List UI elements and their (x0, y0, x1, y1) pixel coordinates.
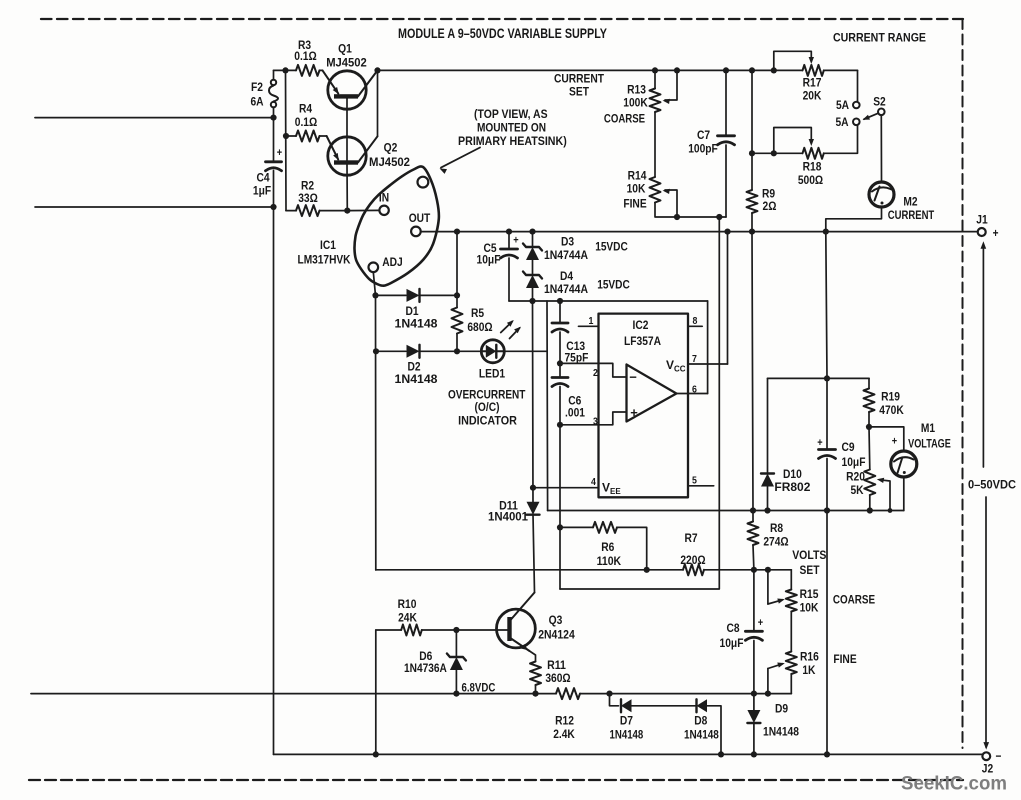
wire C4 column upper (273, 118, 275, 162)
junction R3/R4 column top (282, 67, 288, 73)
wire R13 to R14 (654, 112, 656, 177)
IC1 pin ADJ (369, 263, 379, 273)
svg-text:OUT: OUT (409, 211, 431, 225)
junction C6/pin3 (557, 422, 563, 428)
svg-text:Q2: Q2 (384, 141, 398, 155)
svg-text:15VDC: 15VDC (595, 240, 628, 254)
IC2 pin 4 lead (Vee) (533, 487, 599, 489)
svg-text:6A: 6A (250, 95, 263, 109)
junction C13 top (557, 298, 563, 304)
svg-text:J1: J1 (976, 213, 988, 227)
svg-text:0.1Ω: 0.1Ω (295, 115, 318, 129)
svg-text:M1: M1 (921, 421, 935, 435)
svg-text:+: + (993, 226, 999, 240)
junction R20 bottom (867, 507, 873, 513)
svg-text:6.8VDC: 6.8VDC (462, 681, 496, 695)
R15 wiper (767, 570, 769, 604)
wire input bottom (negative line) (31, 693, 556, 695)
junction R2/Q2 base/IN (344, 208, 350, 214)
module dashed border (bottom) (29, 779, 963, 781)
svg-text:D10: D10 (783, 467, 802, 481)
junction rail/C5 (506, 229, 512, 235)
svg-text:+: + (277, 147, 282, 159)
junction ADJ column/bottom rail (373, 751, 379, 757)
resistor R12 2.4K (556, 688, 580, 699)
svg-text:+: + (758, 617, 763, 629)
LED1 emission arrows (501, 322, 512, 333)
svg-text:R14: R14 (628, 169, 647, 183)
svg-text:R11: R11 (547, 658, 566, 672)
R16 wiper (767, 669, 769, 694)
LED LED1 overcurrent indicator (481, 340, 504, 363)
arrow from note to IC1 (441, 148, 480, 168)
wire pin7 riser to rail (727, 232, 729, 364)
svg-text:INDICATOR: INDICATOR (458, 414, 517, 428)
svg-text:M2: M2 (903, 195, 917, 209)
junction Q1 collector / top rail (374, 67, 380, 73)
module dashed border (top) (41, 18, 963, 20)
svg-text:MOUNTED ON: MOUNTED ON (477, 121, 546, 135)
capacitor C5 10uF (508, 232, 510, 249)
wire C9 column lower (826, 511, 828, 755)
svg-text:IC1: IC1 (320, 238, 336, 252)
junction R11/neg line (532, 691, 538, 697)
wire V-/feedback line (533, 300, 708, 302)
capacitor C6 .001 (559, 363, 561, 377)
junction M2/rail/C9 column (823, 229, 829, 235)
svg-text:R5: R5 (471, 306, 484, 320)
junction ADJ/D1 (372, 292, 378, 298)
pot R20 5K (868, 427, 871, 470)
diode D11 1N4001 (527, 502, 540, 515)
svg-text:IN: IN (379, 191, 389, 205)
svg-text:R18: R18 (803, 160, 822, 174)
svg-text:220Ω: 220Ω (680, 553, 705, 567)
junction rail/D3 (529, 229, 535, 235)
svg-text:Q1: Q1 (338, 42, 352, 56)
wire C9 column (826, 232, 827, 379)
resistor R9 2ohm (747, 190, 758, 213)
wire top rail (collectors to current range) (378, 69, 803, 71)
module dashed border (right) (962, 19, 964, 748)
svg-text:33Ω: 33Ω (298, 191, 318, 205)
svg-text:CURRENT: CURRENT (888, 208, 935, 222)
IC2 pin 1 stub (579, 325, 599, 327)
svg-text:SET: SET (800, 563, 820, 577)
svg-text:+: + (817, 437, 822, 449)
resistor R8 274ohm (752, 511, 754, 522)
svg-text:5A: 5A (835, 115, 848, 129)
svg-text:10μF: 10μF (720, 636, 744, 650)
svg-text:−: − (629, 370, 637, 385)
diode D7 1N4148 / D8 1N4148 branch (610, 694, 619, 706)
junction R7/C8/R8 (751, 567, 757, 573)
svg-text:1N4148: 1N4148 (395, 317, 438, 331)
wire D4 node to D11 (532, 301, 535, 505)
svg-text:LF357A: LF357A (624, 334, 661, 348)
wire Q2 base down (346, 165, 348, 211)
wire R10 corner to bottom rail (375, 630, 377, 754)
svg-text:S2: S2 (873, 95, 886, 109)
transistor Q3 2N4124 (497, 609, 536, 648)
wire input mid (to C4 node) (35, 206, 274, 208)
wire R14 bottom (655, 203, 719, 218)
diode D1 1N4148 (376, 294, 407, 296)
svg-text:C4: C4 (256, 171, 269, 185)
svg-text:R7: R7 (684, 531, 697, 545)
wire D11 to Q3 collector (511, 593, 535, 621)
junction C13/pin2 (557, 360, 563, 366)
IC2 pin 8 stub (688, 325, 702, 327)
svg-text:.001: .001 (565, 406, 585, 420)
IC1 mounting hole (418, 177, 429, 188)
svg-text:LM317HVK: LM317HVK (298, 253, 351, 267)
wire column R3-R4-R2 (285, 70, 288, 210)
svg-text:R10: R10 (398, 597, 417, 611)
svg-text:FINE: FINE (623, 197, 646, 211)
svg-text:1N4148: 1N4148 (763, 725, 799, 739)
wire D10/R19 top line (768, 377, 870, 379)
svg-text:5: 5 (692, 475, 697, 487)
wire R7 to volts set (704, 569, 791, 571)
svg-text:1K: 1K (802, 663, 815, 677)
svg-text:2.4K: 2.4K (553, 727, 575, 741)
capacitor C13 75pF (559, 301, 561, 323)
svg-text:SeekIC.com: SeekIC.com (901, 773, 1007, 795)
junction R5/LED1 (454, 348, 460, 354)
svg-text:1μF: 1μF (253, 184, 271, 198)
IC2 pin 2 lead (560, 363, 627, 377)
svg-text:0.1Ω: 0.1Ω (294, 49, 317, 63)
junction R14/C7/feedback column (716, 214, 722, 220)
svg-text:R16: R16 (800, 650, 819, 664)
wire M2 to rail (826, 207, 882, 232)
transistor Q1 MJ4502 (328, 71, 366, 109)
wire F2 top to R3 (274, 69, 297, 71)
svg-text:680Ω: 680Ω (467, 320, 492, 334)
svg-text:100K: 100K (623, 96, 648, 110)
svg-text:6: 6 (692, 384, 697, 396)
wire R18 to S2 contact (824, 125, 858, 153)
svg-text:CURRENT RANGE: CURRENT RANGE (833, 31, 926, 45)
junction D10 bottom (764, 507, 770, 513)
wire Q1 collector to Q2 collector (377, 70, 379, 136)
junction D7D8/bottom rail (718, 751, 724, 757)
wire Q1 base to Q2 base (346, 99, 348, 161)
connector J2 - (982, 752, 990, 760)
capacitor C9 10uF (826, 378, 828, 449)
resistor R7 220ohm (683, 564, 704, 575)
meter M1 VOLTAGE (869, 427, 904, 451)
svg-text:1: 1 (589, 315, 594, 327)
svg-text:C8: C8 (726, 621, 739, 635)
svg-text:2Ω: 2Ω (763, 199, 777, 213)
junction D6/neg line (453, 691, 459, 697)
wire M1 bottom (903, 477, 905, 511)
svg-text:274Ω: 274Ω (763, 535, 788, 549)
wire C4 column to bottom rail (273, 171, 275, 755)
wire input top (to F2) (35, 117, 274, 119)
svg-text:R20: R20 (846, 470, 865, 484)
junction D7 branch (606, 691, 612, 697)
fuse F2 6A (273, 70, 275, 79)
svg-text:+: + (630, 405, 638, 420)
svg-text:ADJ: ADJ (382, 255, 403, 269)
pot R13 100K coarse (654, 70, 656, 88)
wire Q3 base (456, 629, 507, 631)
wire S2 pole to M2 (880, 115, 882, 182)
junction R4 tap (283, 133, 289, 139)
svg-text:R17: R17 (803, 76, 822, 90)
svg-text:0–50VDC: 0–50VDC (968, 478, 1016, 492)
svg-text:+: + (892, 436, 897, 448)
svg-text:PRIMARY HEATSINK): PRIMARY HEATSINK) (458, 134, 567, 148)
junction R6/long wire (644, 567, 650, 573)
svg-text:D8: D8 (694, 714, 707, 728)
svg-text:FINE: FINE (833, 652, 856, 666)
IC2 pin 7 lead (Vcc) (688, 363, 728, 365)
svg-text:1N4744A: 1N4744A (544, 282, 588, 296)
junction D1/R5 (454, 292, 460, 298)
wire to IC1 IN pin (347, 209, 379, 211)
connector J1 + (978, 228, 986, 236)
svg-text:R13: R13 (627, 83, 646, 97)
wire output rail (IC1 OUT to J1) (421, 231, 978, 233)
junction rail/R13 (652, 67, 658, 73)
wire R5 column (456, 232, 458, 308)
junction rail/R9 column (749, 67, 755, 73)
svg-text:4: 4 (591, 476, 596, 488)
wire 0-50VDC upper with arrow to J1 (982, 245, 984, 468)
junction pin7/rail (724, 229, 730, 235)
diode D9 1N4148 (753, 694, 755, 710)
diode D2 1N4148 (376, 350, 406, 352)
svg-text:MJ4502: MJ4502 (369, 155, 410, 169)
svg-text:SET: SET (569, 85, 589, 99)
resistor R11 360ohm (530, 662, 541, 686)
svg-text:CURRENT: CURRENT (554, 72, 605, 86)
resistor R4 0.1ohm (286, 135, 296, 137)
IC2 pin 5 stub (688, 485, 714, 487)
svg-text:VOLTS: VOLTS (792, 548, 826, 562)
IC1 pin OUT (411, 227, 421, 237)
R14 wiper (665, 190, 677, 217)
wire R15 to R16 (790, 612, 792, 652)
svg-text:5K: 5K (850, 483, 863, 497)
resistor R19 470K (868, 378, 870, 388)
svg-text:470K: 470K (879, 403, 904, 417)
svg-text:75pF: 75pF (564, 351, 588, 365)
svg-text:C7: C7 (697, 128, 710, 142)
pot R18 500ohm (752, 152, 803, 154)
pot R14 10K fine (650, 177, 661, 203)
svg-text:8: 8 (693, 315, 698, 327)
svg-text:(TOP VIEW, AS: (TOP VIEW, AS (474, 107, 548, 121)
junction C9 column/bottom rail (824, 751, 830, 757)
resistor R3 0.1ohm (296, 65, 320, 76)
svg-text:D4: D4 (560, 269, 573, 283)
svg-text:D3: D3 (561, 235, 574, 249)
svg-text:360Ω: 360Ω (545, 671, 570, 685)
wire voltage divider line y=510 (548, 510, 904, 512)
svg-text:COARSE: COARSE (833, 593, 875, 607)
svg-text:LED1: LED1 (479, 367, 505, 381)
svg-text:MODULE A 9–50VDC VARIABLE SUPP: MODULE A 9–50VDC VARIABLE SUPPLY (398, 25, 608, 41)
resistor R5 680ohm (452, 308, 463, 334)
svg-text:1N4001: 1N4001 (488, 510, 528, 524)
junction C8/D9/neg line (751, 691, 757, 697)
junction rail/C7 (723, 67, 729, 73)
junction ADJ/D2 (373, 348, 379, 354)
junction R15 wiper tap (765, 567, 771, 573)
svg-text:R6: R6 (601, 540, 614, 554)
svg-text:(O/C): (O/C) (475, 400, 500, 414)
junction D4 / V- node (529, 298, 535, 304)
svg-text:C9: C9 (841, 440, 854, 454)
switch S2 (853, 102, 860, 109)
svg-text:1N4148: 1N4148 (684, 728, 719, 742)
wire ADJ long line (376, 569, 683, 571)
wire LED1 to feedback riser (504, 350, 547, 352)
pot R16 1K fine (786, 652, 797, 675)
svg-text:10K: 10K (627, 182, 646, 196)
meter M2 CURRENT (869, 182, 894, 207)
pot R17 20K (771, 67, 777, 73)
svg-text:R15: R15 (800, 587, 819, 601)
junction C9 bottom (824, 507, 830, 513)
svg-text:24K: 24K (398, 611, 417, 625)
wire R17 to S2 contact (857, 70, 859, 101)
svg-text:1N4736A: 1N4736A (404, 661, 447, 675)
capacitor C7 100pF (725, 70, 727, 135)
svg-text:20K: 20K (803, 89, 822, 103)
transistor Q2 MJ4502 (328, 137, 366, 175)
svg-text:R19: R19 (881, 390, 900, 404)
svg-text:7: 7 (692, 353, 697, 365)
svg-text:MJ4502: MJ4502 (326, 56, 367, 70)
junction pin4/D11 column (530, 485, 536, 491)
op IC1 LM317HVK TO-3 outline (354, 166, 438, 285)
svg-text:+: + (513, 235, 518, 247)
svg-text:IC2: IC2 (633, 318, 649, 332)
svg-text:10μF: 10μF (842, 455, 866, 469)
op-amp triangle (627, 365, 677, 422)
wire pin6 feedback riser (707, 301, 709, 394)
svg-text:−: − (996, 749, 1002, 763)
svg-text:15VDC: 15VDC (597, 278, 630, 292)
junction OUT rail / R5 column (454, 229, 460, 235)
zener D3 1N4744A (532, 232, 534, 247)
junction R10/D6/Q3 base (453, 627, 459, 633)
junction R9/output rail (749, 229, 755, 235)
wire bottom rail (negative to J2) (274, 753, 983, 755)
diode D10 FR802 (767, 378, 769, 473)
junction R19/R20/M1 (866, 424, 872, 430)
svg-text:D9: D9 (775, 702, 788, 716)
zener D6 1N4736A (455, 630, 457, 657)
svg-text:D7: D7 (620, 714, 633, 728)
svg-text:F2: F2 (251, 80, 263, 94)
wire pin3 column down to R6 (559, 425, 561, 589)
junction wire1/F2/C4 (270, 115, 276, 121)
IC2 pin 6 output lead (676, 393, 707, 395)
op-amp IC2 LF357A box (599, 314, 689, 498)
svg-text:5A: 5A (836, 98, 849, 112)
svg-text:R4: R4 (299, 102, 312, 116)
IC2 pin 3 lead (560, 412, 627, 425)
resistor R10 24K (376, 629, 401, 631)
junction R8 top (750, 507, 756, 513)
junction R18 tap (749, 150, 755, 156)
resistor R6 110K (557, 524, 563, 530)
svg-text:2N4124: 2N4124 (538, 628, 575, 642)
svg-text:110K: 110K (597, 554, 622, 568)
wire 0-50VDC lower with arrow to J2 (985, 497, 987, 747)
svg-text:Q3: Q3 (549, 613, 563, 627)
junction D9/bottom rail (751, 751, 757, 757)
wire current-set feedback column (560, 217, 719, 589)
capacitor C8 10uF (753, 570, 755, 632)
svg-text:1N4744A: 1N4744A (544, 248, 588, 262)
resistor R2 33ohm (286, 210, 296, 212)
pot R15 10K coarse (790, 570, 792, 590)
svg-text:10μF: 10μF (477, 253, 501, 267)
svg-text:2: 2 (593, 367, 598, 379)
svg-text:FR802: FR802 (774, 480, 810, 494)
wire R9 column upper (751, 70, 753, 190)
junction wire2/C4 column (270, 204, 276, 210)
wire ADJ column (373, 272, 375, 295)
wire LED riser (546, 301, 549, 511)
svg-text:10K: 10K (800, 601, 819, 615)
capacitor C4 1uF (266, 160, 282, 163)
svg-text:3: 3 (593, 416, 598, 428)
svg-text:R12: R12 (555, 714, 574, 728)
wire C5 bottom to D4 node (509, 300, 533, 302)
svg-text:1N4148: 1N4148 (395, 372, 438, 386)
IC1 pin IN (379, 206, 388, 215)
svg-text:1N4148: 1N4148 (610, 728, 644, 742)
zener D4 1N4744A (526, 275, 539, 288)
svg-text:R8: R8 (770, 521, 783, 535)
svg-text:COARSE: COARSE (604, 112, 645, 126)
svg-text:500Ω: 500Ω (798, 173, 823, 187)
junction C9 top line (824, 375, 830, 381)
wire R9 column to R8 (752, 232, 753, 511)
svg-text:100pF: 100pF (688, 142, 718, 156)
R13 wiper (674, 67, 680, 73)
svg-text:VOLTAGE: VOLTAGE (908, 437, 951, 451)
wire R3 to Q1 emitter (320, 69, 323, 71)
